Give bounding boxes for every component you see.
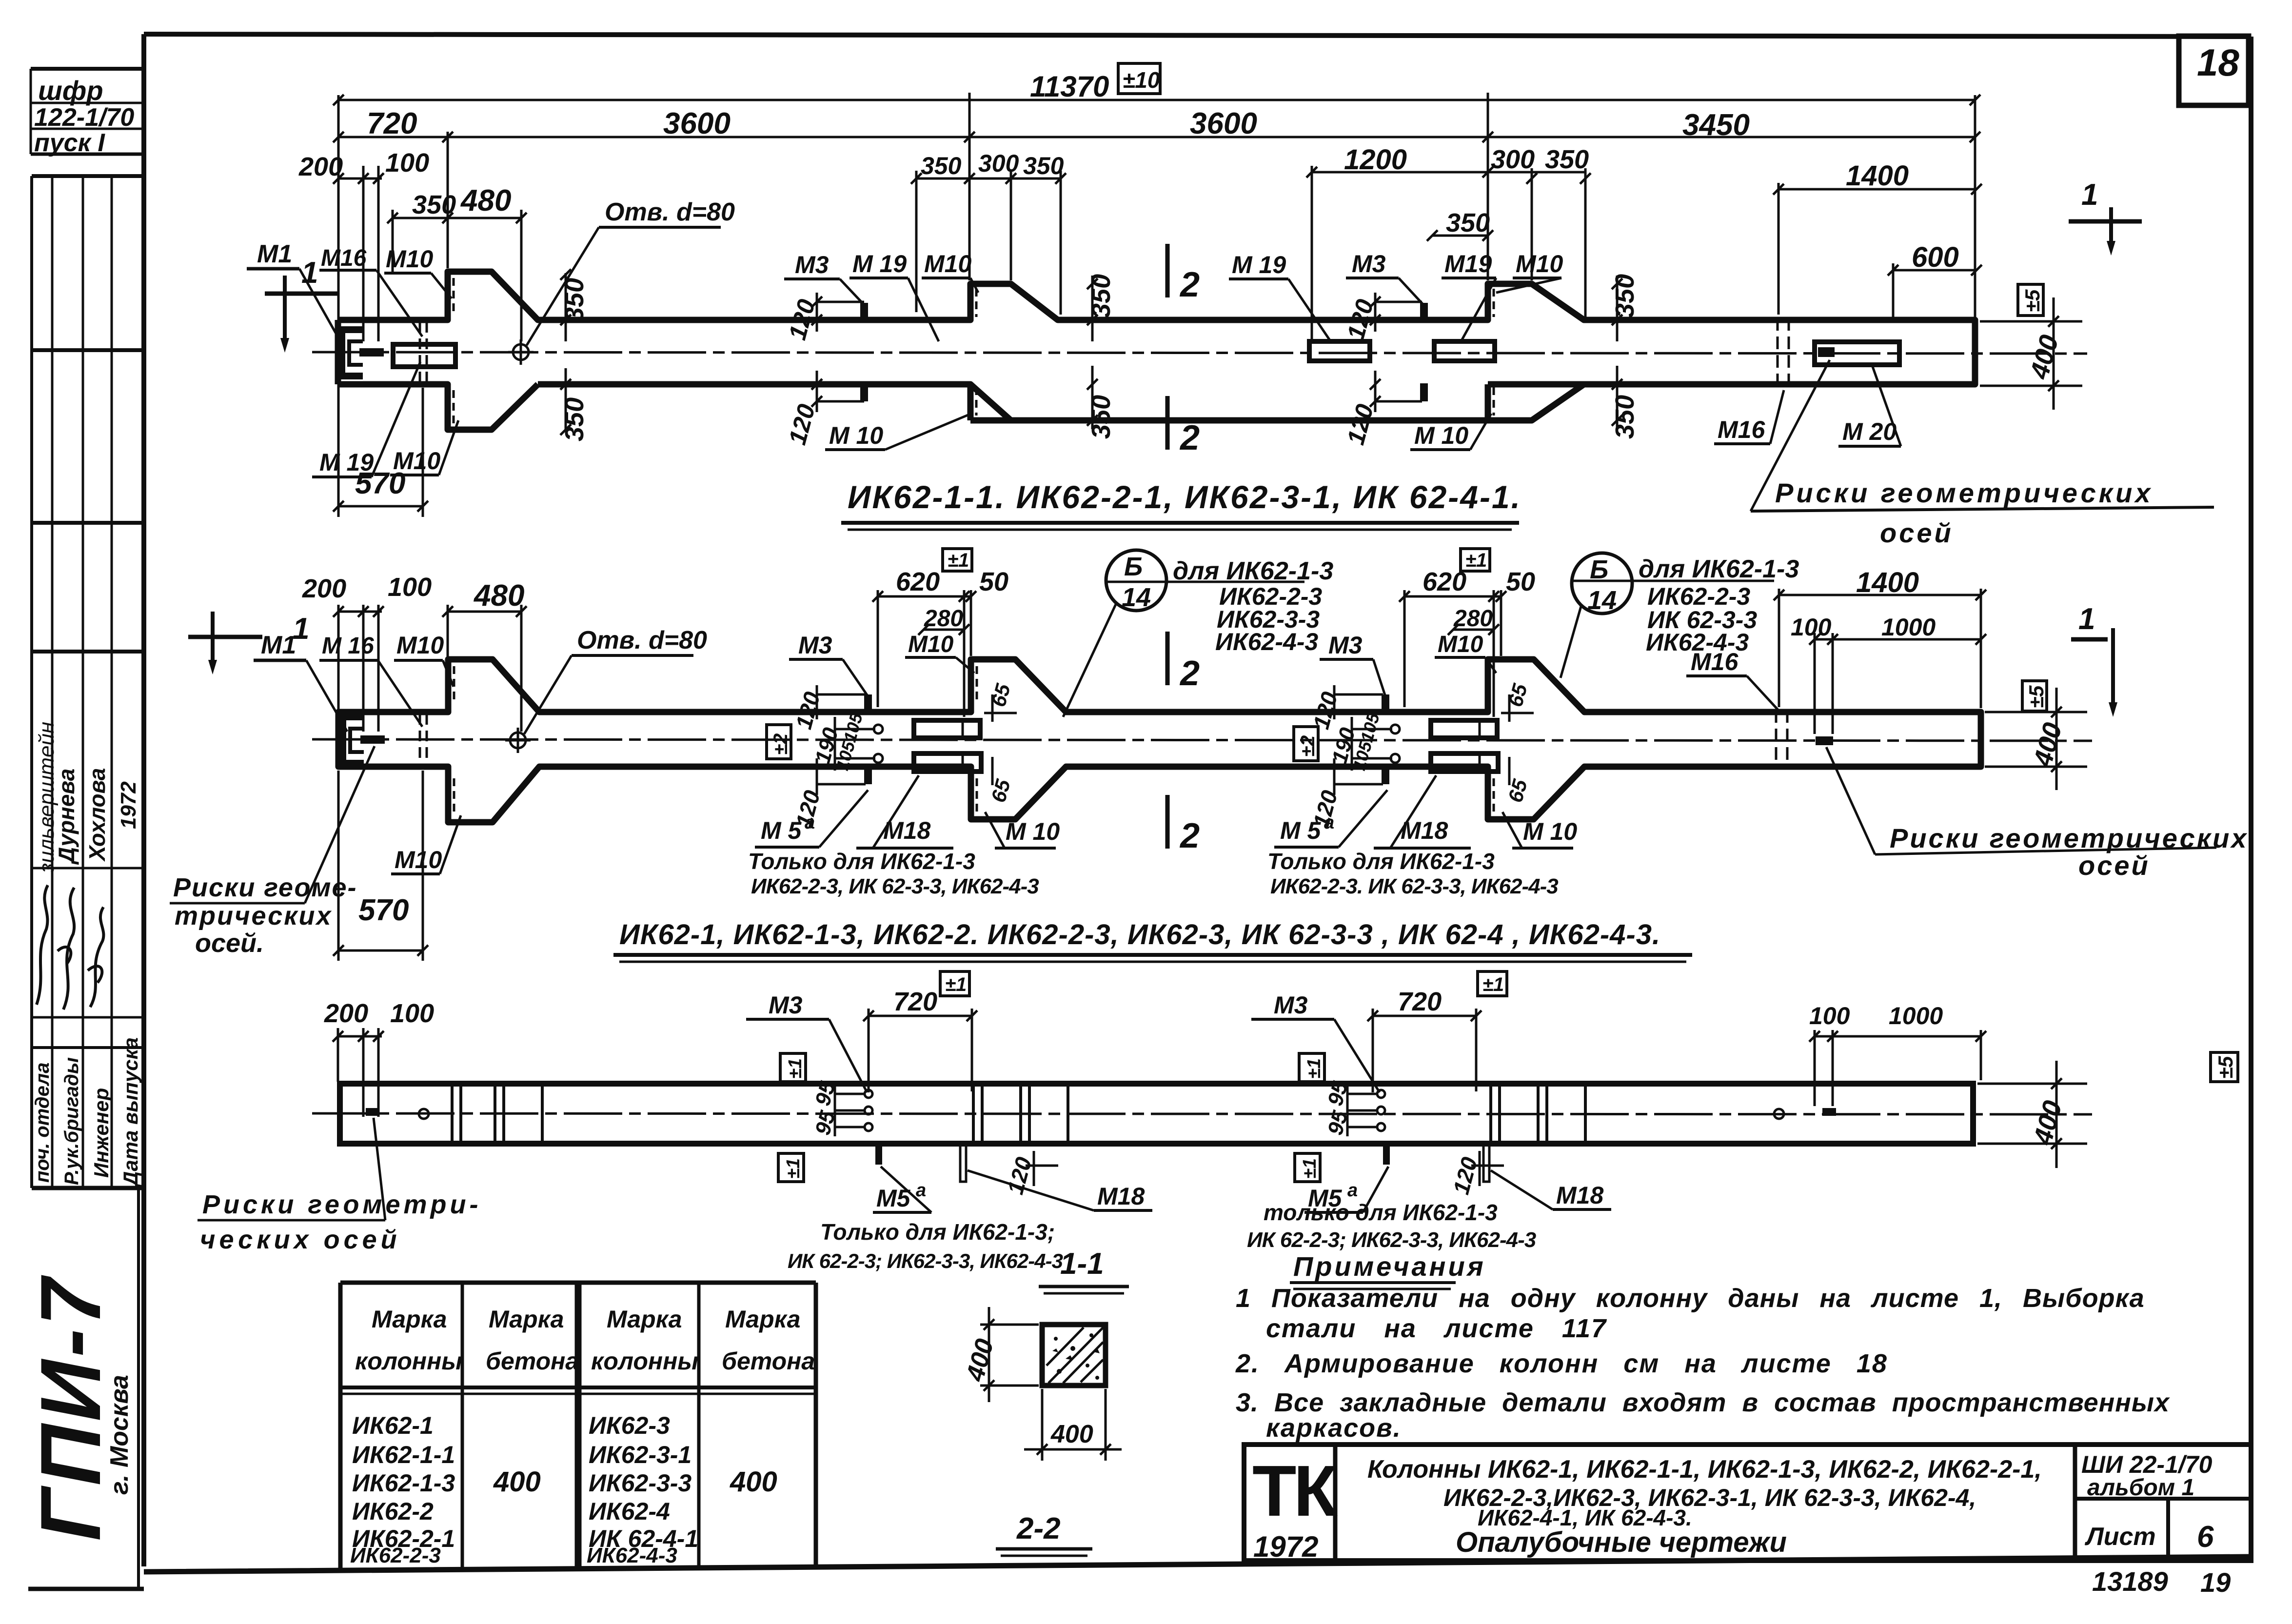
svg-text:120: 120 (784, 297, 821, 343)
right end 400 dim / pm5 (1980, 297, 2082, 410)
section 1 marks top drawing (265, 276, 339, 341)
anchor dashed verticals left (420, 714, 427, 766)
svg-text:±10: ±10 (1123, 67, 1160, 93)
svg-text:400: 400 (2024, 332, 2064, 383)
svg-text:±5: ±5 (2214, 1056, 2237, 1079)
svg-text:Опалубочные чертежи: Опалубочные чертежи (1456, 1526, 1787, 1558)
pm boxes middle (943, 549, 972, 571)
svg-text:Отв. d=80: Отв. d=80 (605, 198, 735, 226)
svg-text:М10: М10 (1516, 250, 1563, 277)
svg-text:М 10: М 10 (829, 422, 883, 449)
svg-text:ШИ 22-1/70: ШИ 22-1/70 (2081, 1451, 2213, 1478)
svg-text:Хохлова: Хохлова (84, 768, 110, 862)
anchor dashed verticals left (420, 322, 427, 383)
svg-text:М 19: М 19 (1232, 251, 1286, 278)
svg-text:280: 280 (1453, 606, 1493, 632)
svg-text:±1: ±1 (945, 974, 967, 995)
svg-text:350: 350 (1087, 274, 1116, 318)
svg-text:шфр: шфр (38, 75, 103, 106)
svg-text:ИК62-4-3: ИК62-4-3 (587, 1544, 677, 1567)
M16 anchor tick (359, 348, 384, 356)
svg-text:350: 350 (412, 190, 456, 219)
svg-text:1000: 1000 (1889, 1002, 1943, 1030)
M5a dots (874, 725, 1400, 763)
svg-text:ческих осей: ческих осей (200, 1225, 401, 1254)
svg-text:ИК62-2-3. ИК 62-3-3, ИК62-4-3: ИК62-2-3. ИК 62-3-3, ИК62-4-3 (1270, 874, 1558, 898)
svg-text:ИК62-1-1: ИК62-1-1 (352, 1441, 455, 1468)
svg-text:65: 65 (987, 681, 1015, 709)
svg-text:350: 350 (921, 152, 962, 179)
svg-text:Б: Б (1590, 555, 1608, 584)
section 1 marks middle (188, 612, 262, 663)
svg-text:М16: М16 (1691, 648, 1739, 675)
svg-text:2-2: 2-2 (1016, 1512, 1061, 1545)
svg-text:ИК 62-2-3; ИК62-3-3, ИК62-4-3: ИК 62-2-3; ИК62-3-3, ИК62-4-3 (1247, 1228, 1536, 1252)
svg-text:М 10: М 10 (1006, 818, 1060, 845)
svg-text:ТК: ТК (1252, 1451, 1338, 1531)
svg-text:М10: М10 (386, 245, 433, 273)
svg-text:400: 400 (961, 1336, 999, 1385)
svg-text:200: 200 (324, 999, 368, 1028)
svg-text:Р.ук.бригады: Р.ук.бригады (61, 1057, 82, 1185)
svg-text:620: 620 (896, 567, 940, 596)
svg-text:ИК62-4: ИК62-4 (589, 1498, 670, 1525)
svg-text:ИК62-3: ИК62-3 (589, 1412, 670, 1439)
svg-text:Только для ИК62-1-3: Только для ИК62-1-3 (748, 849, 975, 874)
svg-text:720: 720 (1398, 987, 1442, 1016)
svg-text:720: 720 (893, 987, 937, 1016)
svg-text:100: 100 (390, 999, 434, 1028)
svg-text:50: 50 (1506, 567, 1535, 596)
channel dash hooks at head (454, 278, 1494, 423)
svg-text:Инженер: Инженер (90, 1088, 113, 1178)
120 dims at M3 ticks (817, 293, 1422, 412)
sheet number box 18 (2179, 36, 2249, 105)
rotated small dims at consoles (120/190/105 105/65) (790, 681, 1534, 830)
svg-text:для ИК62-1-3: для ИК62-1-3 (1639, 555, 1799, 583)
svg-text:М18: М18 (1556, 1182, 1603, 1209)
svg-text:Примечания: Примечания (1293, 1251, 1486, 1282)
svg-text:бетона: бетона (722, 1347, 815, 1375)
svg-text:1000: 1000 (1881, 614, 1936, 641)
svg-text:ИК62-1-3: ИК62-1-3 (352, 1469, 455, 1497)
svg-text:М3: М3 (1328, 632, 1363, 659)
svg-text:М3: М3 (769, 991, 803, 1019)
svg-text:18: 18 (2197, 41, 2239, 84)
svg-text:±1: ±1 (1300, 1158, 1320, 1179)
svg-text:М10: М10 (1438, 632, 1483, 657)
svg-text:65: 65 (987, 776, 1015, 805)
svg-text:пуск I: пуск I (34, 129, 105, 157)
svg-text:а: а (1347, 1180, 1358, 1201)
svg-text:М 19: М 19 (319, 449, 374, 476)
svg-text:стали на листе 117: стали на листе 117 (1266, 1314, 1607, 1343)
hole Otv d=80 (513, 344, 529, 360)
svg-text:М16: М16 (321, 245, 367, 271)
svg-text:11370: 11370 (1030, 70, 1109, 103)
svg-text:1 Показатели на одну колонну: 1 Показатели на одну колонну даны на лис… (1236, 1284, 2145, 1313)
svg-text:300: 300 (1491, 145, 1535, 174)
svg-text:120: 120 (1342, 297, 1379, 343)
M16 anchor tick (360, 735, 385, 744)
left riska tick + hole (366, 1108, 379, 1116)
svg-text:100: 100 (385, 148, 429, 178)
svg-text:ИК62-1: ИК62-1 (352, 1412, 434, 1439)
svg-text:±1: ±1 (785, 1058, 806, 1079)
svg-text:400: 400 (493, 1466, 541, 1498)
hole (510, 733, 526, 748)
95 95 small dims c1 (835, 1093, 864, 1095)
svg-text:Дурнева: Дурнева (54, 769, 79, 865)
svg-text:120: 120 (1448, 1154, 1482, 1197)
svg-text:±2: ±2 (1297, 735, 1319, 757)
svg-text:480: 480 (473, 579, 524, 613)
M3 ticks (860, 303, 868, 321)
svg-text:М10: М10 (924, 250, 971, 277)
svg-text:М 20: М 20 (1842, 418, 1897, 445)
svg-text:Риски геоме-: Риски геоме- (173, 873, 357, 902)
svg-text:осей: осей (2078, 850, 2150, 881)
top drawing labels with leaders (247, 198, 1901, 477)
svg-text:570: 570 (358, 893, 409, 927)
svg-text:осей: осей (1880, 517, 1954, 548)
svg-text:3600: 3600 (663, 107, 731, 140)
svg-text:осей.: осей. (195, 929, 264, 958)
svg-text:1: 1 (2081, 178, 2098, 212)
axis (312, 739, 2092, 741)
svg-text:350: 350 (1023, 152, 1064, 179)
svg-text:ИК62-3-1: ИК62-3-1 (589, 1441, 692, 1468)
channel dash hooks (454, 666, 1494, 815)
svg-text:М19: М19 (1444, 250, 1492, 277)
svg-text:ИК62-2-3, ИК 62-3-3, ИК62-4-3: ИК62-2-3, ИК 62-3-3, ИК62-4-3 (751, 874, 1039, 898)
svg-text:М3: М3 (1352, 250, 1386, 277)
svg-text:поч. отдела: поч. отдела (32, 1063, 53, 1183)
svg-text:только для ИК62-1-3: только для ИК62-1-3 (1264, 1200, 1498, 1225)
svg-text:2: 2 (1179, 816, 1200, 855)
svg-text:1: 1 (301, 256, 318, 290)
M16 dashed near right end (1778, 318, 1789, 386)
svg-text:350: 350 (560, 397, 589, 441)
svg-text:1400: 1400 (1846, 160, 1909, 192)
svg-text:М3: М3 (1274, 991, 1308, 1019)
svg-text:г. Москва: г. Москва (105, 1375, 134, 1495)
end plate M1 bracket (342, 330, 363, 376)
joint verticals (452, 1084, 1585, 1144)
section 2 marks top drawing (1166, 244, 1170, 450)
svg-text:300: 300 (978, 150, 1019, 177)
svg-text:350: 350 (1446, 208, 1490, 238)
svg-text:М1: М1 (261, 631, 296, 659)
column outline top (338, 272, 1975, 420)
M5a ticks and M18 marks below bar (875, 1145, 882, 1165)
svg-text:100: 100 (1809, 1002, 1850, 1030)
svg-text:65: 65 (1503, 681, 1532, 709)
svg-text:200: 200 (298, 152, 343, 181)
svg-text:М10: М10 (393, 447, 440, 475)
svg-text:±1: ±1 (948, 550, 969, 571)
svg-text:100: 100 (1791, 614, 1832, 641)
svg-text:ИК62-1-1. ИК62-2-1, ИК62-3-1,: ИК62-1-1. ИК62-2-1, ИК62-3-1, ИК 62-4-1. (848, 479, 1521, 515)
svg-text:65: 65 (1503, 776, 1532, 805)
M19 plate left (393, 344, 455, 367)
svg-text:для ИК62-1-3: для ИК62-1-3 (1173, 557, 1333, 585)
top drawing dimension rows (338, 93, 1976, 517)
svg-text:М10: М10 (395, 846, 442, 873)
svg-text:1: 1 (2078, 602, 2095, 636)
svg-text:120: 120 (790, 788, 825, 831)
svg-text:М 10: М 10 (1523, 818, 1577, 845)
svg-text:280: 280 (924, 606, 963, 632)
svg-text:200: 200 (302, 574, 346, 603)
svg-text:400: 400 (2028, 1098, 2068, 1149)
column outline (338, 659, 1981, 822)
svg-text:альбом 1: альбом 1 (2087, 1475, 2194, 1501)
svg-text:1972: 1972 (1253, 1530, 1318, 1563)
svg-text:13189: 13189 (2092, 1566, 2168, 1597)
M16 dashed right (1776, 710, 1787, 769)
svg-text:Дата выпуска: Дата выпуска (119, 1037, 142, 1188)
svg-text:ИК62-3-3: ИК62-3-3 (589, 1469, 692, 1497)
svg-text:а: а (916, 1180, 926, 1201)
svg-text:3. Все закладные детали вхо: 3. Все закладные детали входят в состав … (1236, 1388, 2170, 1417)
M18 channel plates at consoles (914, 720, 1498, 772)
svg-text:14: 14 (1122, 583, 1151, 612)
svg-text:ГПИ-7: ГПИ-7 (23, 1275, 119, 1541)
axis line (312, 352, 2087, 354)
svg-text:ИК62-2-3: ИК62-2-3 (350, 1544, 441, 1567)
svg-text:2: 2 (1179, 418, 1200, 457)
svg-text:14: 14 (1587, 586, 1617, 615)
B/14 circles (1063, 550, 1774, 717)
svg-text:100: 100 (388, 573, 432, 602)
svg-text:120: 120 (784, 401, 821, 448)
svg-text:Лист: Лист (2084, 1523, 2156, 1551)
svg-text:М10: М10 (396, 632, 444, 659)
svg-text:бетона: бетона (486, 1347, 579, 1375)
svg-text:Риски геометрических: Риски геометрических (1775, 477, 2154, 508)
svg-text:Марка: Марка (489, 1306, 564, 1333)
bottom drawing dims (338, 1009, 2087, 1186)
svg-text:М 16: М 16 (322, 633, 374, 659)
svg-text:1: 1 (293, 612, 309, 646)
svg-text:120: 120 (1308, 788, 1342, 831)
svg-text:350: 350 (1610, 395, 1640, 439)
right riska tick (1816, 736, 1833, 745)
svg-text:±5: ±5 (2025, 685, 2048, 708)
svg-text:М3: М3 (798, 632, 832, 659)
M5a dots columns (865, 1090, 1385, 1131)
svg-text:±2: ±2 (770, 733, 791, 755)
svg-text:1200: 1200 (1344, 144, 1407, 176)
svg-text:480: 480 (460, 184, 511, 218)
svg-text:2: 2 (1179, 654, 1200, 693)
svg-text:6: 6 (2197, 1520, 2214, 1554)
middle drawing labels (170, 626, 1577, 958)
svg-text:1972: 1972 (117, 781, 140, 829)
M20 plate right (1815, 342, 1899, 365)
svg-text:±1: ±1 (1482, 974, 1504, 995)
svg-text:М 19: М 19 (852, 250, 907, 277)
svg-text:М10: М10 (908, 632, 954, 657)
svg-text:50: 50 (979, 567, 1008, 596)
svg-text:350: 350 (1610, 274, 1640, 318)
svg-text:2: 2 (1179, 265, 1200, 304)
svg-text:ИК62-4-3: ИК62-4-3 (1215, 628, 1318, 655)
svg-text:2. Армирование колонн см на: 2. Армирование колонн см на листе 18 (1235, 1349, 1888, 1378)
svg-text:120: 120 (1342, 401, 1379, 448)
svg-text:М 10: М 10 (1414, 422, 1468, 449)
svg-text:400: 400 (1050, 1420, 1093, 1448)
svg-text:ИК 62-2-3; ИК62-3-3, ИК62-4-3: ИК 62-2-3; ИК62-3-3, ИК62-4-3 (788, 1249, 1063, 1272)
svg-text:Марка: Марка (607, 1306, 682, 1333)
svg-text:Риски геометри-: Риски геометри- (202, 1190, 482, 1219)
svg-text:±1: ±1 (1304, 1058, 1324, 1079)
svg-text:ИК62-1, ИК62-1-3, ИК62-2. ИК: ИК62-1, ИК62-1-3, ИК62-2. ИК62-2-3, ИК62… (619, 919, 1660, 951)
svg-text:Только для ИК62-1-3: Только для ИК62-1-3 (1267, 849, 1495, 874)
svg-text:1-1: 1-1 (1060, 1247, 1104, 1281)
svg-text:ИК62-2: ИК62-2 (352, 1498, 434, 1525)
svg-text:колонны: колонны (355, 1347, 462, 1375)
svg-text:19: 19 (2200, 1567, 2231, 1598)
svg-text:М16: М16 (1718, 416, 1765, 443)
svg-text:каркасов.: каркасов. (1266, 1413, 1402, 1443)
end plate M1 bracket (343, 717, 364, 763)
svg-text:350: 350 (1545, 145, 1589, 174)
svg-text:400: 400 (730, 1466, 777, 1498)
svg-text:Колонны ИК62-1, ИК62-1-1, ИК6: Колонны ИК62-1, ИК62-1-1, ИК62-1-3, ИК62… (1367, 1455, 2042, 1484)
svg-text:М3: М3 (795, 251, 829, 278)
svg-text:720: 720 (367, 107, 417, 140)
svg-text:М18: М18 (1097, 1183, 1145, 1210)
svg-text:±1: ±1 (783, 1158, 804, 1179)
svg-text:трических: трических (175, 901, 333, 931)
svg-text:Б: Б (1124, 552, 1143, 581)
svg-text:1400: 1400 (1856, 567, 1919, 598)
M3 ticks (864, 694, 872, 712)
svg-text:Только для ИК62-1-3;: Только для ИК62-1-3; (820, 1219, 1055, 1245)
svg-text:Отв. d=80: Отв. d=80 (577, 626, 707, 654)
120 dims below (1033, 1151, 1035, 1186)
extension verticals (337, 605, 340, 722)
svg-text:Марка: Марка (725, 1306, 800, 1333)
M19 plates middle (1309, 341, 1370, 361)
svg-text:3450: 3450 (1682, 108, 1750, 142)
pm1 boxes bottom drawing (940, 971, 969, 996)
svg-text:Марка: Марка (372, 1306, 447, 1333)
extension verticals (337, 95, 340, 517)
svg-text:3600: 3600 (1190, 107, 1257, 140)
svg-text:600: 600 (1912, 241, 1959, 273)
svg-text:±5: ±5 (2021, 289, 2044, 312)
svg-text:122-1/70: 122-1/70 (34, 103, 134, 132)
middle drawing dims (338, 589, 1981, 961)
svg-text:колонны: колонны (591, 1347, 698, 1375)
right end 400 dim / pm5 (middle) (1985, 688, 2087, 790)
svg-text:350: 350 (1087, 395, 1116, 439)
svg-text:±1: ±1 (1465, 550, 1487, 571)
svg-text:М1: М1 (257, 240, 292, 268)
section 2 marks middle (1166, 632, 1170, 849)
signatures scribbles (37, 885, 103, 1010)
